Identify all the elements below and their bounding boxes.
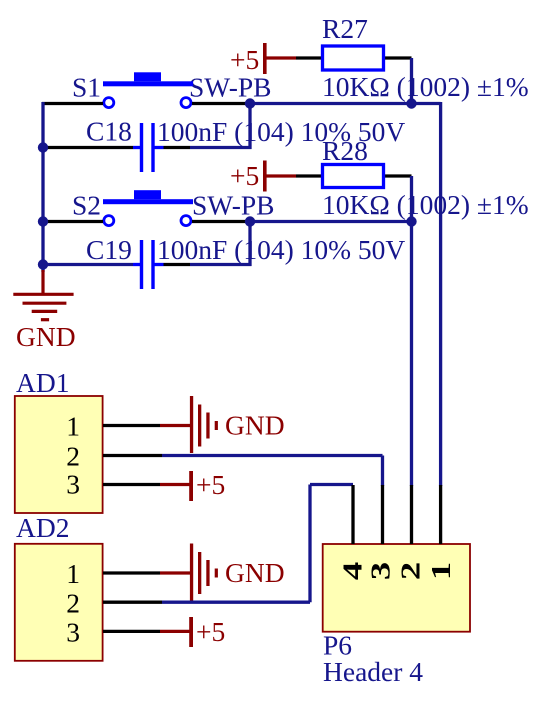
wire C18 to S1 node xyxy=(164,146,191,149)
pin 2 wire AD1 to P6.3 xyxy=(103,454,162,457)
svg-text:C18: C18 xyxy=(86,116,132,147)
power +5 (R27) xyxy=(230,43,296,75)
left rail wire xyxy=(41,102,44,272)
switch S2 SW-PB xyxy=(72,190,275,226)
ground GND earth xyxy=(13,270,75,352)
svg-text:+5: +5 xyxy=(230,44,259,75)
svg-text:2: 2 xyxy=(66,441,80,472)
svg-text:GND: GND xyxy=(225,557,285,588)
wire R28 to node xyxy=(410,176,413,222)
svg-text:AD1: AD1 xyxy=(16,367,69,398)
pin 1 wire AD1 xyxy=(103,424,160,427)
svg-text:3: 3 xyxy=(66,617,80,648)
pin 1 stub P6 xyxy=(439,485,442,544)
switch S1 SW-PB xyxy=(72,72,272,108)
svg-text:100nF (104) 10% 50V: 100nF (104) 10% 50V xyxy=(157,116,405,147)
power +5 (AD1) xyxy=(160,469,225,501)
wire S1 to corner xyxy=(192,102,250,105)
wire rail to S2 xyxy=(42,220,103,223)
pin 3 stub P6 xyxy=(381,485,384,544)
wire C19 to S2 node xyxy=(164,263,191,266)
pin 4 stub P6 xyxy=(351,485,354,544)
svg-text:Header 4: Header 4 xyxy=(323,656,423,687)
svg-text:R27: R27 xyxy=(322,13,368,44)
wire S2 net down to P6.2 xyxy=(410,222,413,487)
connector P6 Header 4 xyxy=(323,544,470,687)
pin 2 stub P6 xyxy=(410,485,413,544)
capacitor C19 xyxy=(86,234,405,289)
svg-text:2: 2 xyxy=(395,562,426,580)
svg-text:3: 3 xyxy=(66,469,80,500)
svg-text:GND: GND xyxy=(16,321,76,352)
power GND (AD1) xyxy=(160,396,285,453)
svg-text:10KΩ (1002) ±1%: 10KΩ (1002) ±1% xyxy=(322,189,529,220)
power +5 (R28) xyxy=(230,160,296,192)
svg-text:SW-PB: SW-PB xyxy=(189,72,272,103)
svg-text:1: 1 xyxy=(66,411,80,442)
svg-text:AD2: AD2 xyxy=(16,512,69,543)
svg-text:4: 4 xyxy=(337,562,368,580)
connector AD2 xyxy=(15,512,103,661)
pin 2 wire AD2 to P6.4 xyxy=(103,601,162,604)
svg-text:GND: GND xyxy=(225,410,285,441)
resistor R28 xyxy=(296,135,529,220)
svg-text:10KΩ (1002) ±1%: 10KΩ (1002) ±1% xyxy=(322,71,529,102)
wire S2 to R28 node xyxy=(192,220,250,223)
wire S1 net down to P6.1 xyxy=(439,102,442,486)
svg-text:1: 1 xyxy=(425,562,456,580)
svg-text:1: 1 xyxy=(66,558,80,589)
power +5 (AD2) xyxy=(160,616,225,647)
pin 1 wire AD2 xyxy=(103,571,160,574)
svg-text:2: 2 xyxy=(66,588,80,619)
node rail/C19 xyxy=(38,259,48,269)
svg-text:100nF (104) 10% 50V: 100nF (104) 10% 50V xyxy=(157,234,405,265)
connector AD1 xyxy=(15,367,103,513)
svg-text:+5: +5 xyxy=(196,616,225,647)
resistor R27 xyxy=(296,13,529,102)
node S2/R28/P6.2 xyxy=(406,216,416,226)
node S1/C18 xyxy=(245,98,255,108)
wire left rail to S1 xyxy=(42,102,103,105)
svg-text:C19: C19 xyxy=(86,234,132,265)
wire rail to C19 xyxy=(42,263,133,266)
svg-text:3: 3 xyxy=(365,562,396,580)
wire rail to C18 xyxy=(42,146,133,149)
node S2/C19 xyxy=(245,216,255,226)
power GND (AD2) xyxy=(160,544,285,601)
wire R27 to node xyxy=(410,58,413,104)
svg-text:+5: +5 xyxy=(196,469,225,500)
svg-text:SW-PB: SW-PB xyxy=(192,190,275,221)
node rail/S2 xyxy=(38,216,48,226)
pin 3 wire AD2 xyxy=(103,630,160,633)
pin 3 wire AD1 xyxy=(103,483,160,486)
svg-text:S2: S2 xyxy=(72,190,101,221)
node S1/R27 xyxy=(406,98,416,108)
svg-text:R28: R28 xyxy=(322,135,368,166)
node rail/C18 xyxy=(38,142,48,152)
capacitor C18 xyxy=(86,116,405,173)
svg-text:S1: S1 xyxy=(72,72,101,103)
svg-text:+5: +5 xyxy=(230,160,259,191)
